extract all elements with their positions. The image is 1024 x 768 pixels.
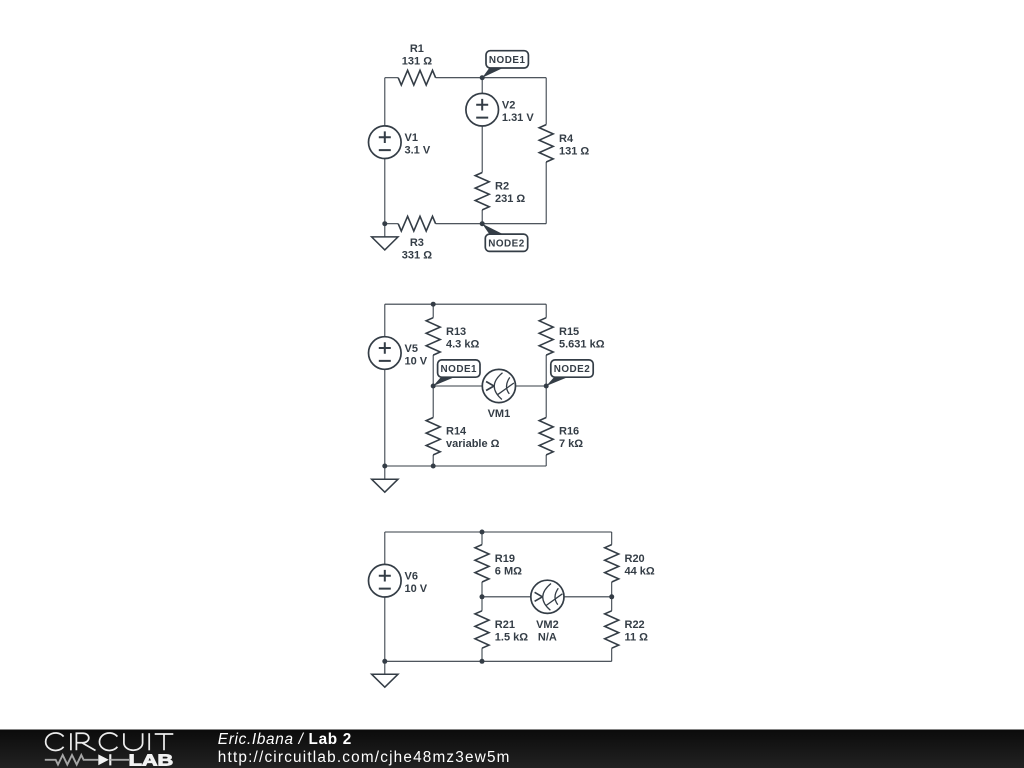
node NODE2 — [546, 360, 593, 386]
ground — [372, 237, 398, 250]
node NODE2 junction — [480, 221, 485, 226]
svg-text:331 Ω: 331 Ω — [402, 249, 432, 261]
svg-text:R22: R22 — [625, 619, 645, 631]
svg-text:3.1 V: 3.1 V — [405, 145, 431, 157]
svg-text:R19: R19 — [495, 553, 515, 565]
junction — [480, 594, 485, 599]
wire — [384, 159, 386, 224]
wire — [384, 466, 386, 479]
resistor R3 — [398, 216, 435, 261]
svg-text:V5: V5 — [405, 343, 418, 355]
circuit 1: two-source resistor network — [369, 43, 590, 262]
node NODE1 — [433, 360, 480, 386]
svg-text:R21: R21 — [495, 619, 515, 631]
svg-text:131 Ω: 131 Ω — [559, 145, 589, 157]
voltmeter VM1 — [482, 369, 515, 420]
wire — [436, 223, 547, 225]
resistor R14 — [426, 418, 499, 455]
svg-text:variable Ω: variable Ω — [446, 438, 500, 450]
junction — [431, 464, 436, 469]
wire — [384, 597, 386, 661]
wire — [385, 77, 398, 79]
node NODE1 — [482, 51, 528, 78]
svg-text:NODE2: NODE2 — [488, 238, 525, 249]
wire — [611, 582, 613, 597]
node NODE2 junction — [544, 384, 549, 389]
footer bar — [0, 730, 1024, 768]
logo wire to LAB — [110, 759, 129, 761]
svg-text:1.31 V: 1.31 V — [502, 112, 534, 124]
svg-text:11 Ω: 11 Ω — [625, 632, 649, 644]
wire — [432, 386, 434, 418]
svg-text:NODE1: NODE1 — [489, 55, 526, 66]
resistor R4 — [539, 125, 589, 162]
wire — [545, 355, 547, 386]
junction — [431, 302, 436, 307]
resistor R21 — [475, 611, 528, 648]
resistor R2 — [475, 173, 525, 210]
resistor R16 — [539, 418, 583, 455]
logo resistor symbol — [45, 755, 99, 765]
voltage source V5 — [369, 337, 428, 370]
wire — [481, 582, 483, 597]
voltage source V6 — [369, 564, 428, 597]
svg-text:V6: V6 — [405, 571, 418, 583]
junction — [480, 659, 485, 664]
wire — [385, 303, 546, 305]
wire — [384, 369, 386, 466]
wire — [384, 78, 386, 126]
resistor R1 — [398, 43, 435, 85]
node NODE1 junction — [480, 75, 485, 80]
svg-text:NODE1: NODE1 — [441, 364, 478, 375]
wire — [545, 455, 547, 466]
circuit 3: two-branch divider with voltmeter — [369, 530, 655, 688]
junction — [480, 530, 485, 535]
wire — [516, 385, 547, 387]
wire — [384, 224, 386, 237]
wire — [384, 532, 386, 564]
wire — [481, 210, 483, 224]
wire — [611, 597, 613, 611]
svg-text:10 V: 10 V — [405, 356, 428, 368]
svg-text:R1: R1 — [410, 43, 424, 55]
svg-text:http://circuitlab.com/cjhe48mz: http://circuitlab.com/cjhe48mz3ew5m — [218, 749, 511, 766]
wire — [611, 648, 613, 661]
svg-text:NODE2: NODE2 — [554, 364, 591, 375]
svg-text:6 MΩ: 6 MΩ — [495, 565, 522, 577]
voltage source V1 — [369, 126, 431, 159]
voltage source V2 — [466, 93, 534, 126]
svg-text:10 V: 10 V — [405, 583, 428, 595]
junction — [382, 221, 387, 226]
resistor R19 — [475, 545, 522, 582]
wire — [433, 385, 482, 387]
wire — [545, 78, 547, 125]
wire — [545, 386, 547, 418]
wire — [545, 304, 547, 318]
ground — [372, 479, 398, 492]
svg-text:4.3 kΩ: 4.3 kΩ — [446, 338, 479, 350]
svg-text:V2: V2 — [502, 100, 515, 112]
svg-text:R14: R14 — [446, 426, 467, 438]
wire — [436, 77, 547, 79]
svg-text:7 kΩ: 7 kΩ — [559, 438, 583, 450]
svg-text:R15: R15 — [559, 326, 579, 338]
wire — [384, 304, 386, 337]
svg-text:231 Ω: 231 Ω — [495, 193, 525, 205]
svg-text:V1: V1 — [405, 132, 418, 144]
wire — [481, 78, 483, 94]
voltmeter VM2 — [531, 580, 564, 643]
svg-text:N/A: N/A — [538, 631, 557, 643]
wire — [432, 304, 434, 318]
wire — [384, 661, 386, 674]
junction — [382, 464, 387, 469]
wire — [481, 532, 483, 545]
svg-text:VM1: VM1 — [488, 408, 511, 420]
wire — [481, 126, 483, 173]
node NODE1 junction — [431, 384, 436, 389]
svg-text:Eric.Ibana / Lab 2: Eric.Ibana / Lab 2 — [218, 731, 352, 748]
svg-text:5.631 kΩ: 5.631 kΩ — [559, 338, 605, 350]
wire — [482, 596, 531, 598]
wire — [432, 455, 434, 466]
svg-text:44 kΩ: 44 kΩ — [625, 565, 655, 577]
wire — [611, 532, 613, 545]
resistor R20 — [605, 545, 655, 582]
junction — [609, 594, 614, 599]
wire — [432, 355, 434, 386]
node NODE2 — [482, 224, 528, 252]
svg-text:R20: R20 — [625, 553, 645, 565]
ground — [372, 674, 398, 687]
resistor R15 — [539, 318, 605, 355]
svg-text:R3: R3 — [410, 237, 424, 249]
wire — [385, 223, 398, 225]
logo diode symbol — [98, 754, 109, 765]
resistor R22 — [605, 611, 648, 648]
svg-text:1.5 kΩ: 1.5 kΩ — [495, 632, 528, 644]
junction — [382, 659, 387, 664]
wire — [545, 162, 547, 224]
wire — [564, 596, 612, 598]
wire — [481, 648, 483, 661]
wire — [385, 531, 612, 533]
wire — [385, 465, 546, 467]
wire — [481, 597, 483, 611]
svg-text:131 Ω: 131 Ω — [402, 55, 432, 67]
svg-text:VM2: VM2 — [536, 619, 559, 631]
svg-text:R13: R13 — [446, 326, 466, 338]
wire — [385, 660, 612, 662]
svg-text:R4: R4 — [559, 133, 574, 145]
circuit 2: wheatstone bridge with voltmeter — [369, 302, 605, 493]
svg-text:LAB: LAB — [129, 753, 174, 768]
CircuitLab logo "CIRCUIT" — [46, 733, 174, 751]
resistor R13 — [426, 318, 479, 355]
svg-text:R16: R16 — [559, 426, 579, 438]
svg-text:R2: R2 — [495, 181, 509, 193]
